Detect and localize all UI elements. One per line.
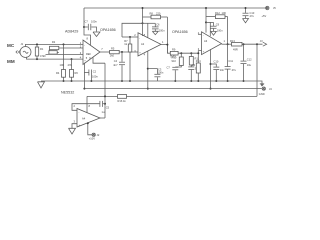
ground (bus left end): [38, 82, 45, 88]
svg-text:1k0: 1k0: [110, 53, 115, 57]
wire servo rail: [87, 95, 257, 97]
svg-text:R10: R10: [172, 55, 177, 59]
svg-text:R5: R5: [111, 47, 115, 51]
resistor R2 (gain): [49, 40, 59, 51]
node R14 tap: [197, 52, 199, 54]
node R7 tap: [129, 36, 131, 38]
wire pin2: [59, 47, 83, 49]
node C10 bus: [215, 80, 217, 82]
resistor R1: [35, 44, 46, 59]
node input bottom / R1: [36, 58, 38, 60]
svg-text:C9: C9: [216, 22, 220, 26]
svg-text:100n: 100n: [92, 75, 98, 79]
capacitor C11 47u: [225, 44, 237, 81]
wire +5V rail: [84, 7, 268, 9]
ground (C13): [243, 19, 249, 23]
svg-text:R1: R1: [40, 47, 44, 51]
wire R5 to A2: [119, 51, 138, 53]
node R14 bus: [197, 80, 199, 82]
capacitor C2 100n (U1 decoupling): [84, 69, 98, 81]
svg-text:A2: A2: [141, 42, 145, 46]
node R10 tap: [180, 52, 182, 54]
node servo column / rail: [104, 95, 106, 97]
svg-text:100n: 100n: [91, 20, 97, 24]
ground (A4 +input): [69, 128, 76, 134]
svg-text:C11: C11: [228, 59, 233, 63]
wire gnd rail: [84, 88, 262, 90]
svg-text:100n: 100n: [217, 29, 223, 33]
svg-text:C6: C6: [156, 22, 160, 26]
svg-text:C7: C7: [167, 65, 171, 69]
wire jog to A3 +in: [198, 51, 201, 54]
node servo column / C5: [104, 103, 106, 105]
wire input bottom: [27, 57, 84, 59]
capacitor C4: [113, 52, 125, 81]
svg-text:-: -: [139, 37, 140, 40]
capacitor C3 100n (A2 decoupling): [148, 67, 164, 81]
capacitor C7 100n: [84, 20, 97, 32]
resistor R3 (gain): [49, 51, 59, 54]
wire A4 pin8: [86, 96, 88, 112]
wire R9 to A3: [178, 52, 198, 54]
svg-text:C2: C2: [93, 69, 97, 73]
node C12 bus: [243, 80, 245, 82]
connector J3 OUT arrow: [260, 39, 267, 46]
ground bus: [41, 80, 260, 82]
svg-text:R2: R2: [52, 40, 56, 44]
capacitor C8 (RIAA): [188, 65, 199, 81]
wire A3 feedback riser left: [205, 8, 207, 33]
node R11 tap: [190, 52, 192, 54]
node C7 tap: [83, 26, 85, 28]
svg-text:A3: A3: [204, 39, 208, 43]
resistor R7: [124, 37, 132, 81]
svg-text:+10V: +10V: [89, 137, 95, 141]
svg-text:REF: REF: [86, 53, 91, 56]
svg-text:R9: R9: [172, 47, 176, 51]
wire servo column: [104, 63, 106, 118]
connector J2 +10V: [89, 133, 100, 140]
label MM: [7, 59, 15, 64]
node rail A3: [205, 7, 207, 9]
label MC: [7, 43, 15, 48]
wire branch down R4: [71, 59, 73, 69]
resistor R4: [68, 63, 79, 81]
wire U1 pin5 to bus: [83, 63, 85, 89]
wire output: [242, 43, 263, 45]
svg-text:R8: R8: [150, 11, 154, 15]
node A3 feedback: [205, 21, 207, 23]
wire A2 output: [161, 44, 170, 53]
node C3 tap: [147, 68, 149, 70]
svg-text:100: 100: [222, 11, 227, 15]
node bottom wire branch: [71, 58, 73, 60]
wire feedback riser right: [166, 17, 168, 53]
connector J1 (cartridge source): [16, 42, 31, 57]
svg-text:47u: 47u: [250, 14, 255, 18]
svg-text:4n7: 4n7: [113, 63, 118, 67]
node A4 pin4: [87, 122, 89, 124]
node C4 bus: [121, 80, 123, 82]
ground (bus right end): [260, 81, 265, 86]
resistor R14 (A3 bias): [192, 53, 202, 81]
ground (C7): [93, 32, 100, 37]
resistor R8 (A2 feedback): [143, 11, 168, 18]
svg-text:C13: C13: [250, 11, 255, 15]
capacitor C12 10u: [241, 44, 253, 81]
node C8 bus: [190, 80, 192, 82]
node C11 tap: [227, 43, 229, 45]
node C11 bus: [227, 80, 229, 82]
node input top / R1: [36, 43, 38, 45]
svg-text:OPA1656: OPA1656: [172, 30, 188, 34]
capacitor C10 100n (A3 decoupling): [211, 59, 225, 81]
wire A2 pin8 stub: [147, 23, 149, 37]
node rail A2: [142, 7, 144, 9]
wire U1 output: [100, 51, 110, 53]
svg-text:100: 100: [60, 63, 65, 67]
op-amp U2 OPA1656: [100, 28, 164, 57]
wire output return column: [256, 44, 258, 96]
node A2 out / feedback: [166, 44, 168, 46]
wire A4 output: [100, 117, 105, 119]
node output return tap: [256, 43, 258, 45]
svg-text:C4: C4: [114, 59, 118, 63]
node A2 V- bus: [147, 88, 149, 90]
svg-text:220: 220: [156, 11, 161, 15]
wire REF pin to servo column: [93, 57, 105, 63]
capacitor C6 100n: [143, 22, 166, 32]
svg-text:R6: R6: [75, 71, 79, 75]
resistor R13: [230, 39, 242, 52]
svg-text:MC: MC: [7, 43, 15, 48]
svg-text:100n: 100n: [158, 70, 164, 74]
svg-text:10n: 10n: [220, 68, 225, 72]
resistor R9: [170, 47, 178, 58]
node C7b bus: [174, 80, 176, 82]
node A3 V- bus: [210, 88, 212, 90]
svg-text:47k: 47k: [68, 63, 73, 67]
node R4 / ground bus: [71, 80, 73, 82]
wire A4 +input to ground: [72, 124, 77, 128]
svg-text:R12: R12: [215, 11, 220, 15]
wire A2 power column: [142, 8, 144, 36]
wire A3 output: [222, 43, 232, 45]
capacitor C7b (RIAA): [167, 65, 182, 81]
svg-text:R16 1k: R16 1k: [118, 99, 127, 103]
svg-text:910: 910: [172, 59, 177, 63]
svg-text:C12: C12: [247, 58, 252, 62]
svg-text:C5: C5: [106, 106, 110, 110]
resistor R11: [189, 53, 199, 65]
svg-text:GND: GND: [259, 92, 265, 96]
svg-text:47u: 47u: [232, 68, 237, 72]
wire A3 V- stub: [210, 49, 212, 88]
node feedback / power column: [142, 22, 144, 24]
svg-text:-: -: [79, 111, 80, 114]
svg-text:MM: MM: [7, 59, 15, 64]
svg-text:C7: C7: [85, 20, 89, 24]
wire A4 pin4 to J2: [88, 123, 92, 135]
capacitor C5 1u: [100, 101, 110, 114]
svg-text:10u: 10u: [247, 63, 252, 67]
node C10 tap: [210, 63, 212, 65]
svg-text:+5V: +5V: [262, 14, 267, 18]
wire A3 feedback riser right: [227, 17, 229, 45]
wire A3 pin8 stub: [209, 22, 211, 36]
wire A2 feedback riser left: [122, 23, 143, 37]
capacitor C9: [206, 22, 223, 32]
resistor R16: [118, 95, 127, 104]
op-amp U1 AD8429: [65, 30, 103, 65]
svg-text:49R: 49R: [233, 48, 238, 52]
capacitor C13 100n (+5V rail): [243, 8, 255, 18]
resistor R12 (A3 feedback): [206, 11, 228, 19]
wire A4 -input: [72, 104, 100, 111]
power column U1 pin8: [84, 8, 91, 45]
wire pin3: [46, 53, 84, 55]
svg-text:C10: C10: [214, 59, 219, 63]
svg-text:AD8429: AD8429: [65, 30, 78, 34]
wire A2 V- stub: [147, 51, 149, 89]
wire input top: [26, 44, 84, 46]
resistor R3: [56, 63, 66, 81]
svg-text:100n: 100n: [159, 28, 165, 32]
connector J5 +5V: [262, 6, 277, 18]
svg-text:R4: R4: [56, 71, 60, 75]
node C4 tap: [121, 51, 123, 53]
svg-text:OPA1656: OPA1656: [100, 28, 116, 32]
node C13 rail: [245, 7, 247, 9]
node gnd rail left: [83, 88, 85, 90]
ground (C6): [152, 31, 158, 34]
svg-text:NE5532: NE5532: [61, 91, 74, 95]
svg-text:-: -: [84, 44, 85, 47]
op-amp U4 NE5532: [61, 91, 100, 127]
node C12 tap: [243, 43, 245, 45]
resistor R10: [172, 53, 184, 65]
svg-text:A4: A4: [82, 116, 86, 120]
ground (C9): [211, 31, 217, 35]
node C2 bus: [90, 80, 92, 82]
connector J4 GND: [259, 87, 272, 96]
wire A3 -in stub: [198, 33, 202, 35]
node R3 / ground bus: [63, 80, 65, 82]
resistor R5: [110, 47, 120, 58]
node R7 bus: [129, 80, 131, 82]
wire A2 -input jog: [122, 36, 138, 38]
op-amp U3 OPA1656: [172, 30, 226, 55]
node top wire branch: [63, 43, 65, 45]
wire branch down R3: [63, 44, 65, 69]
svg-text:-: -: [203, 35, 204, 38]
svg-text:1M: 1M: [192, 63, 196, 67]
svg-text:47k0: 47k0: [40, 54, 46, 58]
